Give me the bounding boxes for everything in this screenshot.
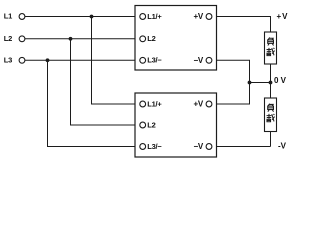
svg-text:L2: L2 [4, 34, 12, 43]
svg-text:0 V: 0 V [274, 76, 287, 85]
svg-text:L3/−: L3/− [147, 142, 162, 151]
svg-text:+V: +V [193, 100, 203, 109]
svg-text:L2: L2 [147, 34, 155, 43]
svg-text:+V: +V [193, 12, 203, 21]
svg-text:−V: −V [193, 56, 203, 65]
svg-text:L3/−: L3/− [147, 56, 162, 65]
svg-text:L3: L3 [4, 55, 12, 64]
svg-text:L1/+: L1/+ [147, 12, 162, 21]
svg-text:+V: +V [277, 12, 289, 21]
svg-text:L1: L1 [4, 12, 12, 21]
svg-text:L2: L2 [147, 120, 155, 129]
svg-text:L1/+: L1/+ [147, 99, 162, 108]
svg-text:-V: -V [278, 141, 287, 150]
svg-text:−V: −V [193, 142, 203, 151]
